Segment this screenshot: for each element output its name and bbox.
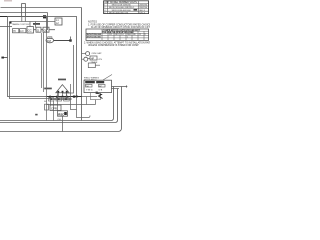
svg-text:TRANS CONT RLY: TRANS CONT RLY (12, 23, 31, 26)
svg-text:HP: HP (91, 57, 95, 60)
compressor delta winding (56, 85, 69, 93)
condenser fan circle CF (82, 52, 103, 56)
compressor label above (58, 79, 66, 81)
vertical connector x46.5 (46, 33, 48, 121)
vertical x95.5 below arrow box (95, 100, 97, 105)
wire bus bottom light continuation (82, 96, 98, 98)
svg-text:LO: LO (20, 30, 23, 33)
notes heading (88, 19, 97, 23)
svg-text:OFM CAP: OFM CAP (92, 52, 103, 55)
vertical drop x62.5 (62, 116, 64, 131)
svg-text:O B: O B (99, 90, 103, 92)
svg-text:38CKC030-060: 38CKC030-060 (86, 37, 101, 39)
riser wire R3 (0, 87, 122, 132)
heater label CH (58, 119, 62, 121)
junction dot block bottom (96, 92, 98, 94)
riser wire R2 (0, 89, 118, 123)
ground arrow glyph (97, 93, 103, 99)
pressure switch box (90, 56, 102, 61)
vertical connector x53.5 (53, 101, 55, 121)
wire bus bottom dark (47, 96, 82, 98)
notes line 2 (91, 27, 152, 29)
wire drops x22 x25.5 (22, 17, 26, 22)
svg-text:1/8: 1/8 (133, 34, 136, 36)
svg-text:CC: CC (28, 29, 32, 33)
junction dots capacitor bus (49, 96, 67, 98)
arrow box below thermostat (91, 93, 101, 100)
relay K1 (13, 29, 19, 33)
wire stub left y26.5 (0, 26, 12, 28)
winding stems (58, 93, 66, 97)
junction dots bottom bus (73, 96, 78, 98)
wire drop x30 (29, 22, 31, 27)
T header wire with end ticks (112, 86, 128, 89)
wire L2 second horizontal (0, 12, 48, 14)
riser wire R1 (0, 87, 114, 121)
winding terminal marks (57, 91, 67, 93)
legend footnote line 1 (84, 42, 153, 45)
vertical connector x50 (50, 97, 52, 106)
relay K2 (20, 29, 26, 33)
wire bus vertical A (41, 33, 43, 88)
vertical connector x57 (57, 93, 59, 111)
control box inner top edge (10, 21, 56, 23)
wire y99 (51, 99, 72, 101)
top right table frame (104, 1, 149, 14)
terminal stub left mid (1, 57, 7, 59)
svg-text:11.1: 11.1 (109, 34, 113, 36)
wire right loop vertical x81 (81, 8, 83, 121)
contactor C1 (27, 27, 34, 33)
notes line 1 (88, 23, 151, 26)
vertical connector x86.5 (86, 97, 88, 105)
title smudge top-left (4, 0, 12, 2)
svg-text:1. FOR USE OF COPPER CONDUCTOR: 1. FOR USE OF COPPER CONDUCTORS RATED CH… (88, 23, 150, 26)
label left of winding (44, 88, 52, 90)
thermostat block TH (84, 80, 112, 92)
svg-text:FM: FM (47, 39, 51, 43)
svg-text:HI: HI (13, 30, 16, 33)
control box inner left edge (10, 22, 72, 99)
circuit breaker CB1 (22, 4, 26, 17)
svg-text:LPS: LPS (98, 59, 103, 61)
svg-text:UNIT MODEL NUMBER VOLTS: UNIT MODEL NUMBER VOLTS (104, 2, 137, 4)
crankcase heater label (44, 101, 47, 103)
overload OL2 (43, 27, 49, 32)
svg-text:1: 1 (127, 37, 128, 39)
leader line to thermostat (103, 75, 112, 81)
svg-text:OL: OL (44, 28, 48, 32)
wire stub hook y117.5 (77, 97, 91, 118)
wire between OL1 OL2 (34, 29, 56, 31)
wire drop to terminal block (47, 13, 49, 31)
junction dot fan wire (69, 39, 71, 41)
overload OL1 (36, 27, 41, 32)
svg-text:Y W G: Y W G (86, 90, 93, 92)
vertical connector x66 (66, 93, 68, 98)
capacitor block row (49, 98, 70, 101)
wire L1 top horizontal (1, 7, 82, 9)
svg-text:TH: TH (86, 86, 89, 88)
wire tick x36 (35, 114, 37, 116)
relay label text (12, 23, 41, 26)
pressure switch circle HP (82, 57, 91, 61)
terminal board TB1 (55, 18, 62, 25)
svg-text:38CKC048-060 575: 38CKC048-060 575 (109, 12, 129, 14)
wire N neutral dark horizontal (0, 16, 45, 18)
control box inner right edge (62, 45, 74, 93)
defrost control box (88, 62, 100, 68)
fan motor FM (46, 37, 54, 43)
stub up from fan wire junction (70, 37, 72, 41)
wire bus vertical B (43, 32, 45, 92)
svg-text:575-3: 575-3 (139, 12, 145, 14)
svg-text:58.3: 58.3 (115, 34, 119, 36)
svg-text:1.4: 1.4 (121, 34, 124, 36)
thermostat label text (84, 78, 99, 82)
start components box dark (58, 111, 68, 117)
cabinet outer box (8, 17, 77, 97)
svg-text:3: 3 (144, 34, 145, 36)
svg-text:RC: RC (99, 86, 103, 88)
wire y104 (47, 104, 96, 106)
wire from fan motor (54, 40, 71, 42)
compressor box CPR (50, 105, 61, 111)
junction dot on inner box top (10, 22, 12, 24)
legend table text (86, 29, 145, 39)
svg-text:UNLESS COMPRESSOR IS STRED FOR: UNLESS COMPRESSOR IS STRED FOR COMP (88, 45, 139, 47)
svg-text:21: 21 (139, 34, 141, 36)
wire drop x46.5 (46, 17, 48, 34)
legend footnote line 2 (88, 45, 139, 47)
top right table text (104, 2, 148, 14)
tick x35.5 (35, 22, 37, 28)
svg-text:SC: SC (44, 101, 47, 103)
wire drop x70.5 to x76.5 (71, 84, 77, 110)
svg-text:NOTES: NOTES (88, 19, 97, 23)
start relay box (45, 104, 49, 110)
svg-text:CPR: CPR (51, 107, 57, 111)
svg-text:RSC: RSC (58, 112, 64, 116)
legend table frame (86, 29, 149, 40)
junction dot J1 (43, 15, 46, 18)
